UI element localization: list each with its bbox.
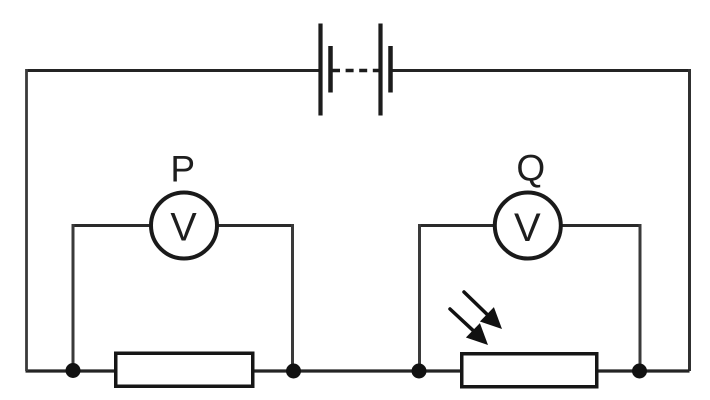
svg-text:V: V xyxy=(170,206,197,250)
wire bottom xyxy=(26,369,690,372)
svg-text:P: P xyxy=(170,149,195,190)
wire voltmeter P horizontal xyxy=(73,224,293,227)
LDR light arrow 1 xyxy=(464,292,502,329)
wire voltmeter Q left drop xyxy=(418,224,421,370)
wire voltmeter Q horizontal xyxy=(420,224,641,227)
resistor R1 xyxy=(116,353,253,386)
wire left side xyxy=(25,69,28,371)
battery BT1 cell 2 short plate xyxy=(388,46,393,93)
node junction dot 2 xyxy=(286,364,301,379)
LDR R2 body xyxy=(462,354,597,387)
node junction dot 4 xyxy=(632,364,647,379)
voltmeter Q body xyxy=(495,193,561,259)
battery BT1 cell 1 short plate xyxy=(328,46,333,93)
svg-text:V: V xyxy=(514,206,541,250)
wire top-left segment xyxy=(26,69,319,72)
battery BT1 cell 2 long plate xyxy=(378,24,382,116)
wire voltmeter P right drop xyxy=(291,224,294,370)
voltmeter P body xyxy=(151,193,217,259)
wire voltmeter P left drop xyxy=(72,224,75,370)
node junction dot 1 xyxy=(66,363,81,378)
battery BT1 cell 1 long plate xyxy=(318,24,322,116)
LDR light arrow 2 xyxy=(450,309,488,345)
wire voltmeter Q right drop xyxy=(639,224,642,370)
wire right side xyxy=(688,69,691,371)
svg-text:Q: Q xyxy=(516,148,545,189)
wire top-right segment xyxy=(392,69,690,72)
battery BT1 omitted-cells dashed link xyxy=(332,69,380,72)
node junction dot 3 xyxy=(412,364,427,379)
